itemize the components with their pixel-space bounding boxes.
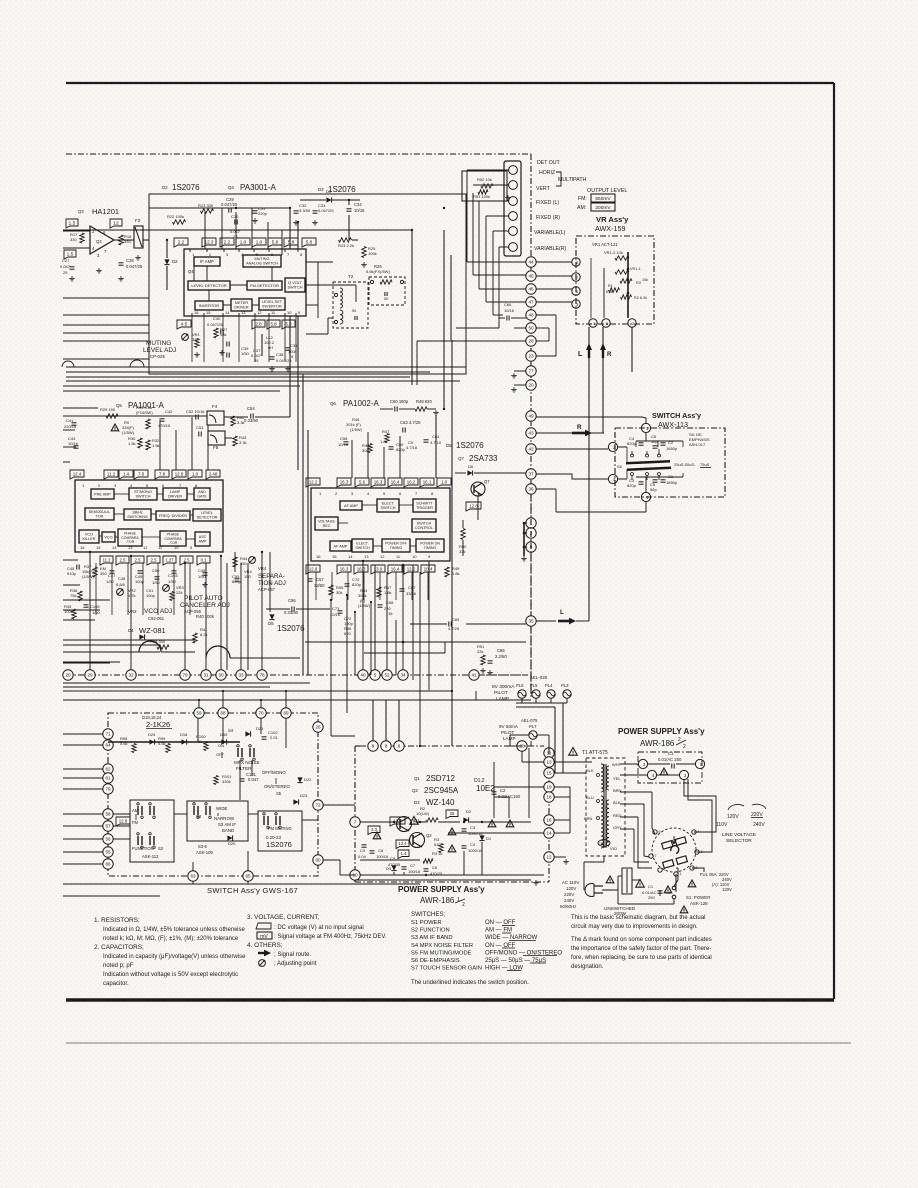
node 28 <box>526 336 536 346</box>
resistor R18 330 <box>119 235 123 245</box>
svg-text:9: 9 <box>372 744 375 749</box>
svg-text:620: 620 <box>344 631 351 636</box>
svg-text:2.5: 2.5 <box>151 557 157 562</box>
voltage flag 12.8 <box>390 817 405 826</box>
svg-text:52: 52 <box>384 673 390 678</box>
filter F4 <box>207 411 224 425</box>
resistor R2 6.2k <box>621 295 632 299</box>
svg-text:78: 78 <box>259 673 265 678</box>
svg-text:R53 100k: R53 100k <box>473 194 490 199</box>
svg-text:R1: R1 <box>608 284 613 288</box>
capacitor C29 0.047/25 <box>228 208 230 213</box>
capacitor C34 10/16 (electrolytic) <box>347 208 352 210</box>
svg-text:1.5: 1.5 <box>69 220 76 226</box>
svg-text:PA3001-A: PA3001-A <box>240 183 277 192</box>
svg-text:56p: 56p <box>651 439 658 444</box>
wire AWX node1 to cap row <box>645 433 647 441</box>
svg-text:48: 48 <box>528 313 534 318</box>
svg-text:S5: S5 <box>276 791 282 796</box>
C1 box with nodes 3 4 2 5 <box>638 752 702 783</box>
lamp wires bus <box>516 702 567 704</box>
svg-text:79: 79 <box>105 787 111 792</box>
warning triangle T1 <box>569 748 578 756</box>
svg-text:VARIABLE(L): VARIABLE(L) <box>534 230 566 236</box>
svg-text:The underlined indicates the s: The underlined indicates the switch posi… <box>411 980 529 986</box>
svg-text:PL6: PL6 <box>516 683 524 688</box>
diode D23 <box>293 799 298 804</box>
wire AWX node4 down loop <box>645 502 647 512</box>
wires PA1002 area verticals <box>234 552 236 572</box>
svg-text:2. CAPACITORS;: 2. CAPACITORS; <box>94 944 144 951</box>
svg-text:16.3: 16.3 <box>340 479 349 484</box>
node 1 AWX113 <box>641 423 650 432</box>
node 10 <box>350 870 360 880</box>
node 37 <box>526 469 536 479</box>
svg-text:LAMP: LAMP <box>170 490 181 494</box>
svg-text:C50: C50 <box>152 568 160 573</box>
svg-text:VARIABLE(R): VARIABLE(R) <box>534 246 566 252</box>
svg-text:Indicated in capacity (μF)/vol: Indicated in capacity (μF)/voltage(V) un… <box>103 954 246 960</box>
svg-text:OFF/MONO: OFF/MONO <box>262 770 286 775</box>
svg-text:C27: C27 <box>62 258 70 263</box>
svg-text:D3: D3 <box>318 187 324 192</box>
node 40 <box>358 670 368 680</box>
svg-text:PL7: PL7 <box>529 724 537 729</box>
svg-text:18: 18 <box>546 795 552 800</box>
voltage flag 12.2 <box>306 478 320 487</box>
warning triangles PSU <box>448 828 456 835</box>
svg-text:69: 69 <box>283 711 289 716</box>
svg-text:50/60Hz: 50/60Hz <box>560 904 576 909</box>
voltage flag 12.2 <box>404 565 418 574</box>
node 30 <box>216 670 226 680</box>
node 36 <box>526 484 536 494</box>
svg-text:1.5: 1.5 <box>67 251 74 257</box>
svg-text:650mV: 650mV <box>595 196 611 202</box>
svg-text:INVERTOR: INVERTOR <box>262 305 282 309</box>
svg-text:LAMP: LAMP <box>496 696 509 702</box>
svg-text:VR1-2 10k: VR1-2 10k <box>604 250 623 255</box>
svg-text:5.6: 5.6 <box>359 479 366 484</box>
svg-text:1000/16: 1000/16 <box>468 848 483 853</box>
svg-text:FUNCTION: FUNCTION <box>132 846 154 851</box>
svg-text:71: 71 <box>105 732 111 737</box>
voltage flag 2.8 <box>252 320 265 329</box>
svg-text:C63 4.7/25: C63 4.7/25 <box>400 420 421 425</box>
svg-text:C28: C28 <box>126 258 134 263</box>
psu internal horizontal <box>360 859 420 861</box>
svg-text:C103: C103 <box>168 573 178 578</box>
svg-text:12: 12 <box>380 554 385 559</box>
voltage flag 16.3 <box>354 565 368 574</box>
voltage flag 1.27 <box>163 556 176 565</box>
svg-text:PA1002-A: PA1002-A <box>343 399 380 408</box>
voltage flag 12.8 <box>116 817 130 826</box>
svg-text:VR1-1: VR1-1 <box>630 267 641 271</box>
voltage flag 16.3 <box>371 478 385 487</box>
svg-text:16.4: 16.4 <box>391 566 400 571</box>
svg-text:C48: C48 <box>118 576 126 581</box>
connector strip J1 <box>504 161 521 256</box>
voltage flag 12.8 <box>306 565 320 574</box>
svg-text:240V: 240V <box>564 898 574 903</box>
VR pin circle 3 <box>572 300 580 308</box>
svg-text:23: 23 <box>528 354 534 359</box>
AC plug symbol <box>585 884 594 897</box>
page boundary chain line top <box>66 153 531 155</box>
border frame bottom (thick) <box>66 998 834 1001</box>
block VCO KILLER <box>79 530 99 543</box>
svg-text:POWER SUPPLY Ass'y: POWER SUPPLY Ass'y <box>618 727 705 736</box>
voltage flag 2.5 <box>147 556 160 565</box>
T1 primary winding lower <box>601 796 603 848</box>
voltage flag 1.0 <box>252 238 266 247</box>
VR pin circle 7 <box>572 273 580 281</box>
svg-text:C9: C9 <box>360 848 366 853</box>
svg-text:65: 65 <box>245 874 251 879</box>
svg-text:22k: 22k <box>176 590 182 595</box>
svg-text:50: 50 <box>384 297 388 301</box>
svg-text:L: L <box>578 351 583 358</box>
svg-text:BAND: BAND <box>222 828 234 833</box>
svg-text:S4: S4 <box>228 728 234 733</box>
wires top PA1001 <box>63 415 207 417</box>
svg-text:AM:: AM: <box>577 205 586 211</box>
svg-text:12: 12 <box>546 855 552 860</box>
voltage flag 1.5 <box>66 219 78 228</box>
block INVERTOR <box>195 301 223 310</box>
psu2 wires <box>612 889 622 891</box>
svg-text:2.2: 2.2 <box>178 239 185 244</box>
node 66 <box>103 859 113 869</box>
svg-text:D2: D2 <box>162 185 168 190</box>
switch assembly AWX-113 box <box>615 428 725 497</box>
wires T2 R26 interconnect <box>368 289 369 291</box>
wire node36 loop <box>536 488 556 490</box>
wires inside PA area top <box>159 420 161 470</box>
node 13 <box>544 757 554 767</box>
svg-text:1S2076: 1S2076 <box>328 185 356 194</box>
svg-text:2SA733: 2SA733 <box>469 454 498 463</box>
svg-text:WHT: WHT <box>612 762 622 767</box>
svg-text:FREQ. DIVIDER: FREQ. DIVIDER <box>159 514 187 518</box>
block SCHMITT TRIGGER <box>413 499 436 512</box>
svg-text:16.4: 16.4 <box>391 479 400 484</box>
svg-text:S3-5: S3-5 <box>198 844 208 849</box>
svg-text:12.3: 12.3 <box>205 239 214 244</box>
selector terminals <box>653 830 657 834</box>
svg-text:2.2/50: 2.2/50 <box>495 654 507 659</box>
svg-text:S3 AM IF BAND: S3 AM IF BAND <box>411 935 453 941</box>
svg-text:10(1W): 10(1W) <box>416 811 430 816</box>
voltage flag 2.5 <box>116 556 129 565</box>
svg-text:R52 10k: R52 10k <box>477 177 492 182</box>
svg-text:AMP: AMP <box>199 539 207 543</box>
svg-text:S5 FM MUTING/MODE: S5 FM MUTING/MODE <box>411 950 472 956</box>
adjust VR3 <box>163 585 170 592</box>
svg-text:SWITCH Ass'y: SWITCH Ass'y <box>652 411 701 420</box>
voltage flag 2.3 <box>368 826 380 835</box>
node 60 <box>313 855 323 865</box>
svg-text:PRE AMP: PRE AMP <box>94 492 111 496</box>
svg-text:12.8: 12.8 <box>469 503 478 508</box>
svg-text:BLK: BLK <box>613 800 621 805</box>
svg-text:2: 2 <box>462 902 465 908</box>
node 16 <box>544 815 554 825</box>
svg-text:7.8: 7.8 <box>138 471 145 476</box>
svg-text:DRIVER: DRIVER <box>234 306 249 310</box>
T1 core lines <box>603 764 605 848</box>
svg-text:40: 40 <box>360 673 366 678</box>
border frame right <box>833 83 835 999</box>
wire node3 stub <box>618 478 627 480</box>
svg-text:VIO: VIO <box>610 846 617 851</box>
node 56 <box>103 834 113 844</box>
node 58 <box>103 809 113 819</box>
voltage flag 2.5 <box>131 556 144 565</box>
block LEVEL SET INVERTOR <box>259 298 285 310</box>
pilot lamp PL4 <box>547 690 555 698</box>
svg-text:75uS: 75uS <box>700 462 710 467</box>
svg-text:MULTIPATH: MULTIPATH <box>558 177 586 183</box>
diode D5 bottom symbol <box>269 614 274 619</box>
svg-text:32: 32 <box>128 673 134 678</box>
voltage flag 25 <box>446 810 458 819</box>
voltage flag 5.8 <box>282 320 295 329</box>
node 42 <box>526 444 536 454</box>
verticals lamps feed <box>475 691 477 700</box>
svg-text:capacitor.: capacitor. <box>103 981 129 987</box>
svg-text:SWITCHES;: SWITCHES; <box>411 911 446 918</box>
node 15 <box>544 768 554 778</box>
svg-text:MUTING: MUTING <box>146 340 171 347</box>
voltage flag 1.0 <box>188 470 202 479</box>
node 18 <box>544 792 554 802</box>
svg-text:30k: 30k <box>336 590 342 595</box>
svg-text:PILOT: PILOT <box>494 690 508 696</box>
pilot lamp PL7 <box>529 731 537 739</box>
T1 primary winding upper <box>601 764 603 792</box>
svg-text:16.3: 16.3 <box>340 566 349 571</box>
node 29 <box>85 670 95 680</box>
svg-text:SWITCH Ass'y GWS-167: SWITCH Ass'y GWS-167 <box>207 886 298 895</box>
wire R signal vertical <box>602 327 604 433</box>
left bundle extra <box>63 644 160 646</box>
svg-text:FM DETECTOR: FM DETECTOR <box>250 283 279 288</box>
svg-text:4.7/25: 4.7/25 <box>448 626 460 631</box>
node 5 <box>370 670 380 680</box>
node 70 <box>256 708 266 718</box>
wires connector to node column <box>467 169 509 171</box>
svg-text:6: 6 <box>398 744 401 749</box>
svg-text:4.7k: 4.7k <box>128 593 136 598</box>
svg-text:SELECTOR: SELECTOR <box>726 838 752 844</box>
warning triangle S1 <box>664 886 672 893</box>
svg-text:0.047/25: 0.047/25 <box>221 202 238 207</box>
vertical wires inside muting box <box>204 212 206 249</box>
resistor R23 330 <box>201 209 214 213</box>
svg-text:BLK: BLK <box>586 768 594 773</box>
muting section outer box <box>149 194 466 374</box>
svg-text:2.3: 2.3 <box>371 827 377 832</box>
svg-text:D21: D21 <box>256 726 264 731</box>
svg-text:4. OTHERS;: 4. OTHERS; <box>247 942 283 949</box>
node 79 <box>180 670 190 680</box>
ground cluster below muting <box>221 350 223 352</box>
IC U Q6 PA1002-A body <box>311 488 450 561</box>
svg-text:S4 MPX NOISE FILTER: S4 MPX NOISE FILTER <box>411 943 473 949</box>
svg-text:PL4: PL4 <box>545 683 553 688</box>
svg-text:14: 14 <box>348 554 353 559</box>
svg-text:49: 49 <box>528 414 534 419</box>
block ST/MONO SWITCH <box>129 488 157 500</box>
node 55 <box>103 847 113 857</box>
wire T2 bottom to flags <box>327 318 329 334</box>
wires from muting area down the middle <box>411 230 413 385</box>
connector pin circle 6 <box>509 243 518 252</box>
svg-text:R40 100k: R40 100k <box>196 614 215 619</box>
svg-text:FIXED (L): FIXED (L) <box>536 200 559 206</box>
svg-text:R24 2.2k: R24 2.2k <box>338 243 354 248</box>
internal wires PA3001 <box>206 266 208 281</box>
svg-text:C52 10/16: C52 10/16 <box>186 409 205 414</box>
diode D22 <box>297 777 302 782</box>
svg-text:METER: METER <box>235 301 249 305</box>
svg-text:S7 TOUCH SENSOR GAIN: S7 TOUCH SENSOR GAIN <box>411 966 482 972</box>
diode D21 <box>245 731 250 736</box>
svg-text:59: 59 <box>196 711 202 716</box>
svg-text:10: 10 <box>412 554 417 559</box>
svg-text:75k: 75k <box>70 593 76 598</box>
left edge wires GWS <box>63 733 103 735</box>
diode D20 <box>227 835 232 840</box>
node 79 <box>103 784 113 794</box>
svg-text:58: 58 <box>105 812 111 817</box>
switch box S3 WIDE NARROW <box>187 801 248 841</box>
svg-text:C53: C53 <box>196 425 204 430</box>
svg-text:VCO: VCO <box>85 533 93 537</box>
svg-text:Indicated in Ω, 1/4W, ±5% tole: Indicated in Ω, 1/4W, ±5% tolerance unle… <box>103 927 246 933</box>
thermal fuse symbol <box>598 840 610 847</box>
svg-text:PILOT: PILOT <box>501 730 514 735</box>
block DEMODULATOR <box>85 508 114 520</box>
capacitor C37 0.047/25 <box>226 353 228 358</box>
box around R52 R53 <box>462 171 507 201</box>
svg-text:Q1: Q1 <box>414 776 420 781</box>
svg-text:AF AMP: AF AMP <box>334 544 348 548</box>
svg-text:15: 15 <box>332 554 337 559</box>
node 64 <box>103 740 113 750</box>
chain line horizontal node row <box>66 674 531 676</box>
resistor R50 33k <box>461 529 465 540</box>
svg-text:ST/MONO: ST/MONO <box>134 490 152 494</box>
svg-text:D23: D23 <box>300 793 308 798</box>
wires node column x549 to transformer <box>554 761 592 763</box>
node 20 <box>526 380 536 390</box>
svg-text:33: 33 <box>238 673 244 678</box>
verticals GWS top nodes up <box>198 700 200 708</box>
svg-text:D20: D20 <box>228 841 236 846</box>
svg-text:820p: 820p <box>627 483 637 488</box>
extra junction dots <box>198 699 200 701</box>
svg-text:HORIZ: HORIZ <box>539 170 555 176</box>
selector arrow <box>672 836 676 844</box>
svg-text:FIXED (R): FIXED (R) <box>536 215 560 221</box>
svg-text:S6: S6 <box>617 464 623 469</box>
svg-text:SWITCH: SWITCH <box>136 495 151 499</box>
voltage flag 1.0 <box>437 478 451 487</box>
svg-text:16: 16 <box>546 818 552 823</box>
svg-text:12: 12 <box>113 220 119 226</box>
svg-text:1: 1 <box>680 872 682 876</box>
svg-text:noted p; pF: noted p; pF <box>103 963 134 969</box>
svg-text:CONTROL: CONTROL <box>415 526 433 530</box>
svg-text:BLU: BLU <box>586 795 594 800</box>
block ASC AMP <box>195 532 210 546</box>
wire AWX bottom cap row to node4 <box>636 476 683 478</box>
bottom psu wires <box>611 890 613 908</box>
svg-text:330k: 330k <box>222 779 231 784</box>
svg-text:POWER SUPPLY Ass'y: POWER SUPPLY Ass'y <box>398 885 485 894</box>
transformer T2 dashed box <box>333 282 368 328</box>
svg-text:1650p: 1650p <box>666 480 678 485</box>
svg-text:13: 13 <box>364 554 369 559</box>
svg-text:200mV: 200mV <box>595 205 611 211</box>
svg-text:TIMING: TIMING <box>424 546 437 550</box>
svg-text:1. RESISTORS;: 1. RESISTORS; <box>94 917 140 924</box>
svg-text:; Adjusting point: ; Adjusting point <box>274 961 317 967</box>
svg-text:44: 44 <box>528 260 534 265</box>
svg-text:15: 15 <box>546 771 552 776</box>
ground op-amp pin3 <box>98 268 100 270</box>
svg-text:0.33/50: 0.33/50 <box>284 610 299 615</box>
svg-text:14: 14 <box>225 310 230 315</box>
svg-text:42: 42 <box>528 447 534 452</box>
svg-text:20: 20 <box>528 383 534 388</box>
svg-text:AEL-029: AEL-029 <box>530 675 548 680</box>
svg-text:1.27: 1.27 <box>165 557 174 562</box>
svg-text:470/35: 470/35 <box>388 862 401 867</box>
svg-text:55: 55 <box>105 850 111 855</box>
switch box FM MUTING <box>258 811 302 851</box>
psu12 more wires <box>493 762 495 818</box>
IC U Q5 PA1001-A body <box>75 480 223 552</box>
wire op-amp inputs from left edge <box>63 230 90 232</box>
svg-text:C36: C36 <box>290 343 298 348</box>
svg-text:11.2: 11.2 <box>103 557 112 562</box>
svg-text:C41: C41 <box>66 418 74 423</box>
warning triangle fuse <box>688 880 696 887</box>
svg-text:Q4: Q4 <box>228 185 234 190</box>
pilot lamp PL3 <box>563 690 571 698</box>
svg-text:16.3: 16.3 <box>357 566 366 571</box>
T2 windings <box>340 288 342 308</box>
svg-text:C4: C4 <box>470 842 476 847</box>
svg-text:66: 66 <box>105 862 111 867</box>
svg-text:1/50: 1/50 <box>106 579 115 584</box>
svg-text:68: 68 <box>220 711 226 716</box>
svg-text:16.1: 16.1 <box>423 479 432 484</box>
svg-text:3. VOLTAGE, CURRENT;: 3. VOLTAGE, CURRENT; <box>247 914 319 921</box>
svg-text:125: 125 <box>599 842 605 846</box>
node 20 <box>63 670 73 680</box>
svg-text:33k: 33k <box>459 549 465 554</box>
ground below F3 <box>137 255 139 257</box>
svg-text:1.5k: 1.5k <box>152 443 160 448</box>
VR pin circle 6 <box>572 258 580 266</box>
svg-text:7: 7 <box>354 820 357 825</box>
ground right of node 12 <box>554 856 566 858</box>
